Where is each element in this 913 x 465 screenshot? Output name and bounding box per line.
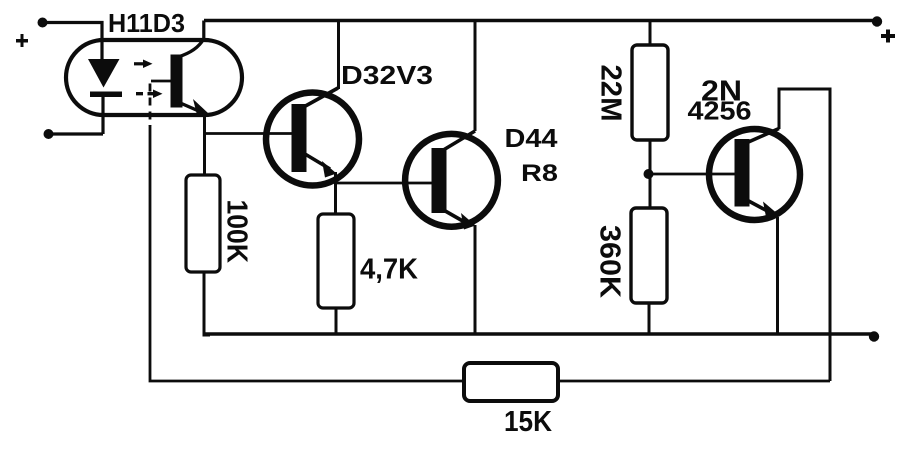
svg-text:H11D3: H11D3 xyxy=(108,8,185,38)
node: LED cathode terminal dot xyxy=(44,129,54,139)
wire: 4.7K bottom to bottom rail xyxy=(335,308,338,335)
Q3 emitter diagonal xyxy=(744,199,772,214)
Q1 emitter arrowhead xyxy=(322,161,337,178)
phototransistor base lead xyxy=(151,80,171,83)
svg-text:15K: 15K xyxy=(504,406,552,438)
wire: cathode terminal to LED cathode xyxy=(49,132,104,135)
wire: opto collector up to top rail xyxy=(202,21,205,41)
svg-text:D32V3: D32V3 xyxy=(341,60,433,90)
wire: Q2 emitter to bottom rail xyxy=(474,225,477,335)
resistor 22M body xyxy=(632,45,668,140)
wire: 100K bottom to bottom rail corner xyxy=(204,272,210,335)
resistor 100K body xyxy=(186,175,220,272)
left + polarity mark xyxy=(16,34,28,47)
svg-text:D44: D44 xyxy=(505,125,559,153)
right + polarity mark xyxy=(881,30,895,43)
Q2 base bar xyxy=(432,148,447,213)
Q1 collector diagonal xyxy=(300,88,338,109)
Q2 collector diagonal xyxy=(440,131,475,152)
wire: 22M bottom to junction to 360K xyxy=(649,140,652,208)
wire: Q1 collector to top rail xyxy=(337,21,340,90)
light arrow upper xyxy=(134,60,153,69)
Q3 collector diagonal xyxy=(744,129,779,145)
LED D1 inside optocoupler xyxy=(88,59,122,97)
wire: Q2 collector to top rail xyxy=(474,21,477,132)
transistor Q3 2N4256 circle xyxy=(709,129,800,220)
wire: Q3 collector loop up and right, down to feedback line xyxy=(779,89,830,381)
resistor 360K body xyxy=(631,208,667,303)
svg-text:4,7K: 4,7K xyxy=(360,254,418,286)
wire: feedback from opto base (dashed part) xyxy=(149,84,152,127)
resistor 4,7K body xyxy=(318,214,354,308)
wire: anode terminal to LED anode xyxy=(43,23,103,61)
wire: opto emitter down to 100K, junction to D32V3 base xyxy=(203,113,206,176)
node: bottom rail right end dot xyxy=(869,331,879,341)
transistor Q2 D44 R8 circle xyxy=(405,134,498,227)
Q2 emitter arrowhead xyxy=(461,213,476,230)
Q1 base bar xyxy=(292,104,307,172)
wire: Q1 emitter junction to Q2 base xyxy=(336,182,433,185)
node: top rail right end dot xyxy=(872,16,882,26)
svg-text:22M: 22M xyxy=(595,65,627,122)
resistor 15K body xyxy=(464,363,558,401)
phototransistor emitter diagonal xyxy=(178,102,201,112)
node: divider junction dot xyxy=(644,169,654,179)
svg-text:360K: 360K xyxy=(594,225,626,298)
wire: junction to Q3 base xyxy=(649,173,736,176)
svg-text:R8: R8 xyxy=(521,160,558,187)
bottom rail wire xyxy=(205,332,874,335)
wire: feedback vertical to bottom xyxy=(150,125,464,381)
wire: Q3 emitter to bottom rail xyxy=(776,217,779,334)
light arrow lower (dashed) xyxy=(136,90,163,99)
wire: 360K bottom to bottom rail xyxy=(648,303,651,335)
Q2 emitter diagonal xyxy=(440,208,468,224)
wire: 15K right to collector drop xyxy=(558,380,830,383)
optocoupler U1 body xyxy=(66,40,242,115)
wire: base line to D32V3 xyxy=(205,132,293,135)
phototransistor collector diagonal xyxy=(178,39,204,57)
phototransistor inside optocoupler: base bar xyxy=(171,55,183,108)
Q1 emitter diagonal xyxy=(300,151,330,169)
node: LED anode terminal dot xyxy=(38,18,48,28)
Q3 emitter arrowhead xyxy=(763,202,779,220)
wire: LED cathode lead xyxy=(101,96,104,134)
svg-text:100K: 100K xyxy=(221,200,253,264)
phototransistor emitter arrowhead xyxy=(193,99,209,117)
transistor Q1 D32V3 circle xyxy=(266,93,359,186)
top rail wire xyxy=(204,19,877,22)
Q3 base bar xyxy=(735,139,750,207)
wire: Q1 emitter down to 4.7K xyxy=(334,172,337,214)
wire: top rail to 22M xyxy=(649,21,652,46)
svg-text:4256: 4256 xyxy=(688,96,752,126)
